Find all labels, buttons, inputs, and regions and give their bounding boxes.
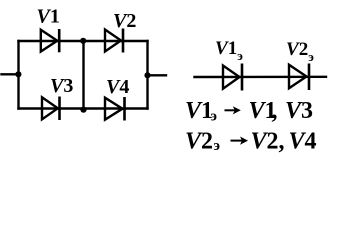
wire middle vertical: [82, 41, 84, 109]
svg-text:V2э: V2э: [286, 39, 314, 64]
diode V2e: [289, 64, 309, 91]
svg-text:V4: V4: [106, 76, 129, 98]
svg-text:V4: V4: [289, 128, 317, 154]
svg-text:V1э: V1э: [215, 38, 243, 63]
node top middle junction: [80, 38, 86, 44]
svg-text:V2: V2: [185, 128, 213, 154]
svg-text:,: ,: [272, 98, 278, 124]
svg-text:V1: V1: [37, 6, 60, 28]
arrow line 2: [231, 137, 249, 145]
svg-text:V2,: V2,: [251, 128, 285, 154]
wire top edge: [19, 40, 148, 42]
wire left lead: [2, 73, 19, 75]
node bottom middle junction: [80, 107, 86, 113]
diode V3: [42, 97, 60, 121]
wire equivalent circuit horizontal: [195, 76, 327, 79]
wire left vertical edge: [17, 41, 19, 109]
svg-text:э: э: [214, 138, 220, 154]
wire right vertical edge: [146, 41, 148, 109]
node left terminal junction: [15, 71, 21, 77]
diode V2: [105, 29, 123, 53]
wire right lead: [148, 74, 167, 76]
svg-text:V3: V3: [285, 98, 313, 124]
svg-text:V1: V1: [185, 98, 213, 124]
svg-text:V3: V3: [50, 75, 73, 97]
wire bottom edge: [19, 107, 148, 109]
svg-text:V2: V2: [113, 10, 136, 32]
node right terminal junction: [144, 72, 150, 78]
diode V1e: [223, 64, 242, 91]
diode V1: [41, 29, 59, 52]
arrow line 1: [225, 106, 241, 114]
svg-text:э: э: [211, 108, 217, 124]
diode V4: [105, 97, 125, 121]
